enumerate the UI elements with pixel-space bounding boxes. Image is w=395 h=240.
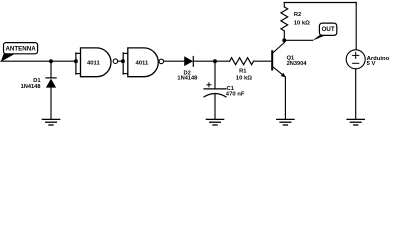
svg-text:R2: R2 — [294, 12, 301, 18]
svg-text:R1: R1 — [239, 68, 246, 74]
svg-text:4011: 4011 — [87, 61, 101, 67]
svg-text:5 V: 5 V — [367, 61, 376, 67]
svg-text:1N4148: 1N4148 — [177, 76, 197, 82]
svg-text:470 nF: 470 nF — [226, 92, 245, 98]
svg-text:10 kΩ: 10 kΩ — [294, 21, 310, 27]
svg-text:2N3904: 2N3904 — [287, 61, 308, 67]
svg-text:OUT: OUT — [322, 26, 335, 33]
svg-text:1N4148: 1N4148 — [21, 84, 41, 90]
svg-text:ANTENNA: ANTENNA — [5, 46, 36, 53]
svg-text:10 kΩ: 10 kΩ — [236, 75, 252, 81]
svg-text:4011: 4011 — [136, 61, 150, 67]
